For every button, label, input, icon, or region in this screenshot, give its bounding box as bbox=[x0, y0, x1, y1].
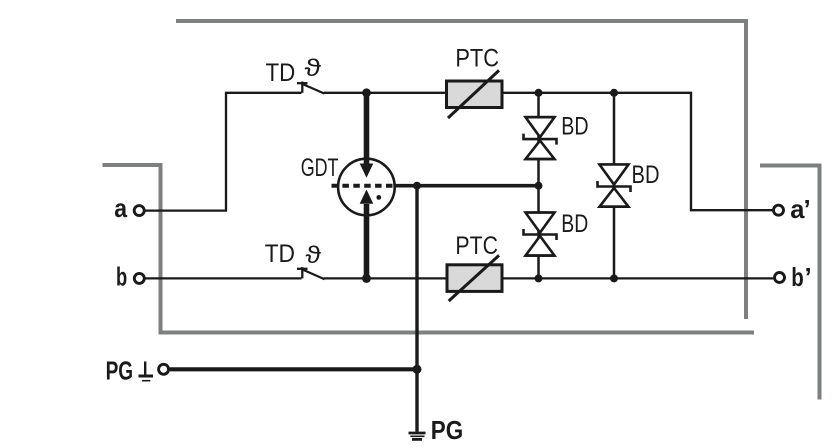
GDT gas discharge tube bbox=[332, 93, 395, 279]
wire BD column 1 bbox=[537, 93, 540, 279]
ground symbol PG bbox=[409, 433, 426, 439]
wire top rail bbox=[324, 93, 774, 210]
svg-text:’: ’ bbox=[805, 262, 812, 292]
wire a to top rail bbox=[145, 93, 302, 211]
diode BD3 bbox=[598, 165, 631, 207]
thermal switch TD1 bbox=[297, 82, 325, 94]
svg-text:PG: PG bbox=[106, 356, 134, 386]
svg-text:PTC: PTC bbox=[455, 232, 498, 260]
svg-text:ϑ: ϑ bbox=[305, 55, 322, 82]
terminal b bbox=[134, 273, 144, 283]
junction PG rail / ground drop bbox=[413, 365, 422, 374]
module outline left/bottom gray line bbox=[103, 165, 755, 333]
junction top rail / GDT bbox=[362, 88, 371, 97]
junction b rail / BD3 bbox=[610, 274, 618, 282]
svg-text:a: a bbox=[114, 193, 127, 223]
module outline top gray line bbox=[176, 21, 746, 319]
PTC thermistor PTC1 bbox=[447, 70, 503, 118]
right terminal bracket gray line bbox=[760, 166, 820, 400]
svg-text:PTC: PTC bbox=[455, 44, 499, 72]
terminal b' bbox=[775, 273, 785, 283]
svg-text:BD: BD bbox=[561, 210, 588, 238]
svg-text:TD: TD bbox=[265, 240, 295, 268]
wire b rail right bbox=[324, 277, 775, 279]
junction b rail / GDT bbox=[362, 274, 371, 283]
svg-text:TD: TD bbox=[266, 59, 296, 87]
wire PG rail bbox=[170, 367, 417, 371]
wire b rail bbox=[145, 277, 302, 279]
svg-text:’: ’ bbox=[804, 194, 811, 224]
diode BD1 bbox=[524, 117, 557, 159]
terminal PG bbox=[159, 364, 169, 374]
thermal switch TD2 bbox=[297, 267, 325, 279]
terminal a' bbox=[774, 205, 784, 215]
earth mark in PG label bbox=[139, 362, 154, 381]
diode BD2 bbox=[524, 213, 557, 256]
svg-text:BD: BD bbox=[632, 161, 660, 189]
junction top rail / BD1 bbox=[535, 89, 543, 97]
PTC thermistor PTC2 bbox=[447, 255, 502, 301]
wire BD column 2 bbox=[613, 93, 616, 279]
junction center electrode / ground drop bbox=[413, 182, 421, 190]
svg-text:PG: PG bbox=[431, 415, 463, 445]
junction b rail / BD2 bbox=[535, 274, 543, 282]
svg-text:BD: BD bbox=[561, 113, 588, 141]
junction top rail / BD3 bbox=[610, 89, 618, 97]
junction center electrode / BD column 1 bbox=[535, 182, 543, 190]
wire ground drop bbox=[415, 186, 418, 432]
svg-text:ϑ: ϑ bbox=[306, 242, 322, 269]
svg-text:b: b bbox=[116, 261, 127, 291]
svg-text:b: b bbox=[791, 262, 804, 292]
wire GDT center electrode to BD column 1 bbox=[394, 184, 539, 188]
svg-text:GDT: GDT bbox=[301, 154, 339, 182]
terminal a bbox=[134, 206, 144, 216]
